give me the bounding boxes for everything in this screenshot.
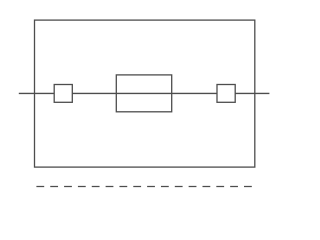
enclosure outline (big rectangle) [35, 20, 255, 167]
terminal (right square) [217, 85, 235, 103]
terminal (left square) [54, 85, 72, 103]
dashed boundary line [36, 186, 252, 188]
component block (middle rectangle) [116, 75, 171, 112]
wire: horizontal feeder line [19, 92, 270, 94]
